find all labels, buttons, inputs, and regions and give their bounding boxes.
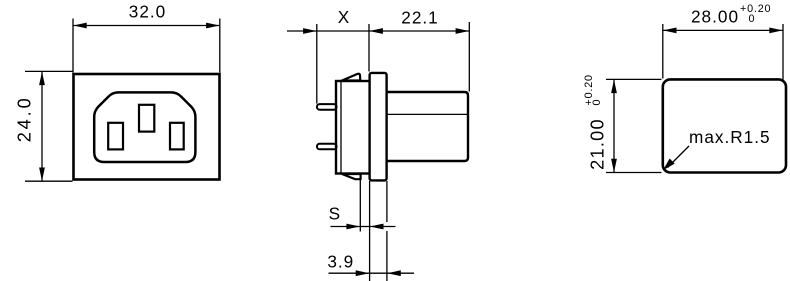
dimension 32.0: dimension line with arrows [73,23,220,29]
side view: housing inner edge line [340,82,342,173]
dimension S: extension lines [360,180,387,281]
side view: front housing body [336,81,371,174]
front view: earth pin (top centre) [139,105,154,132]
front view: connector flange outer rectangle [74,74,220,180]
svg-text:22.1: 22.1 [401,8,438,28]
dimension 28.00: dimension line with arrows [663,28,783,34]
side view: rear body [387,92,468,161]
svg-text:28.00: 28.00 [691,7,739,27]
dimension 3.9: dimension line with arrows [329,270,415,276]
side view: lower solder pin [317,144,337,150]
svg-text:21.00: 21.00 [588,119,608,170]
side view: mounting flange [370,73,387,180]
front view: right pin [170,123,184,150]
dimension 24.0: extension lines [25,71,73,181]
dimensions X / 22.1: dimension line with arrows [287,28,469,34]
front view: left pin [108,123,123,150]
svg-text:+0.20: +0.20 [740,3,771,15]
panel cutout: rounded rectangle [663,79,786,172]
dimension S: dimension line with arrows [331,224,396,230]
dimension 21.00: extension lines [606,79,662,172]
svg-text:S: S [329,204,341,224]
dimension 32.0: extension lines [73,19,220,73]
svg-text:0: 0 [591,99,603,106]
svg-text:0: 0 [749,13,756,25]
annotation max.R1.5: leader line and arrow [663,146,689,170]
svg-text:max.R1.5: max.R1.5 [689,127,771,147]
dimension 21.00: dimension line with arrows [611,79,617,172]
svg-text:3.9: 3.9 [327,251,354,271]
svg-text:32.0: 32.0 [129,2,166,22]
side view: bottom snap latch [342,174,361,179]
front view: C14 socket recess outline [94,92,195,162]
side view: top snap latch [342,74,360,81]
side view: rear body parting line [388,113,468,115]
svg-text:24.0: 24.0 [15,98,35,142]
side view: upper solder pin [317,104,337,110]
svg-text:X: X [338,7,350,27]
dimension 24.0: dimension line with arrows [39,71,45,181]
dimension 28.00: extension lines [663,24,783,80]
dimensions X / 22.1: extension lines [317,22,470,104]
